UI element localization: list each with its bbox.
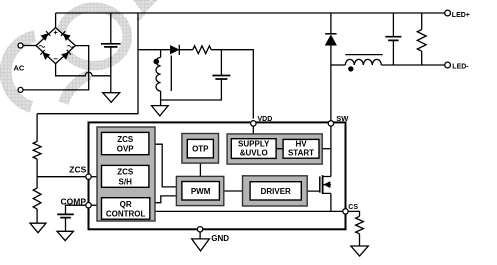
block group ZCS/QR (left) <box>97 127 155 221</box>
svg-text:LED-: LED- <box>452 64 469 71</box>
wire SUPPLY to HV START <box>276 148 283 150</box>
wire C1 to ground <box>110 47 112 93</box>
wire VDD pin to SUPPLY <box>252 126 254 139</box>
block HV START <box>283 139 319 158</box>
svg-text:ZCS: ZCS <box>69 164 86 174</box>
wire R4 to LED- line <box>421 51 423 65</box>
block DRIVER <box>243 176 308 206</box>
wire ZCS divider top <box>36 114 38 142</box>
wire SW pin to Q1 drain <box>330 126 332 177</box>
transformer winding T1 <box>154 56 172 92</box>
wire rail to R4 <box>421 13 423 30</box>
svg-text:COMP: COMP <box>61 197 87 207</box>
wire rail down to aux node and left to ZCS divider <box>37 13 138 114</box>
capacitor C3 (output) <box>385 37 401 41</box>
ground (GND pin) <box>192 239 210 251</box>
terminal AC top <box>18 43 23 48</box>
ground (R5) <box>351 246 368 256</box>
svg-text:OTP: OTP <box>192 145 209 154</box>
wire AC line top to bridge left corner <box>23 45 36 47</box>
wire AC line bottom to bridge right corner <box>23 46 89 90</box>
capacitor C4 (COMP) <box>57 214 74 217</box>
terminal AC bottom <box>18 87 23 92</box>
wire CS pin to R5 <box>348 211 359 216</box>
wire rail to C3 <box>392 13 394 37</box>
wire ZCS OVP to PWM <box>149 144 182 187</box>
resistor R3 (aux) <box>193 46 211 54</box>
svg-text:AC: AC <box>14 63 25 72</box>
block PWM <box>176 176 223 205</box>
wire R2 to ground <box>36 209 38 223</box>
wire GND pin to ground <box>199 232 201 239</box>
svg-text:OVP: OVP <box>117 144 135 153</box>
pin VDD <box>251 121 256 126</box>
wire rail to D3 <box>330 13 332 34</box>
ground (C1) <box>103 93 120 103</box>
pin ZCS <box>86 174 91 179</box>
wire top DC rail <box>56 12 445 14</box>
transistor Q1 (power MOSFET) <box>320 175 331 194</box>
wire OTP to PWM <box>199 158 201 177</box>
wire T1 top <box>160 50 162 58</box>
ground (C4) <box>57 231 73 240</box>
wire QR CONTROL to PWM <box>150 196 182 203</box>
svg-text:START: START <box>288 148 314 157</box>
capacitor C2 (VDD) <box>212 76 230 80</box>
svg-text:S/H: S/H <box>119 177 133 186</box>
svg-text:CS: CS <box>348 204 358 211</box>
block SUPPLY &UVLO <box>231 139 276 159</box>
wire COMP pin to QR CONTROL <box>91 204 102 206</box>
wire L1 to LED- terminal <box>381 64 444 66</box>
wire aux node to D2 and VDD <box>138 50 253 119</box>
resistor R2 <box>33 188 41 209</box>
wire C2 top <box>220 50 222 76</box>
ground (R2) <box>30 223 46 233</box>
inductor L1 <box>345 55 382 72</box>
svg-text:SW: SW <box>336 114 349 123</box>
pin COMP <box>86 203 91 208</box>
wire R5 to ground <box>359 234 361 246</box>
pin SW <box>328 121 333 126</box>
wire Q1 source to CS pin <box>330 193 332 211</box>
wire T1 bottom to ground <box>160 91 162 106</box>
svg-text:SUPPLY: SUPPLY <box>238 139 270 148</box>
resistor R1 <box>33 141 41 159</box>
svg-text:GND: GND <box>211 234 229 243</box>
wire ZCS pin to ZCS S/H <box>91 176 102 178</box>
terminal LED+ <box>445 10 451 16</box>
wire C2 bottom return to T1 <box>161 79 222 100</box>
block ZCS S/H <box>102 165 149 187</box>
ground (T1) <box>152 106 169 116</box>
wire rail to C1 <box>110 13 112 44</box>
wire D3 to SW pin <box>330 45 332 121</box>
terminal LED- <box>445 62 451 68</box>
op-amp-IC block U1 <box>89 122 346 229</box>
resistor R5 (current sense) <box>356 216 364 234</box>
pin GND <box>197 227 202 232</box>
diode D3 (freewheel) <box>325 34 337 46</box>
wire bridge bottom corner to C1 ground node (hop over AC wire) <box>56 64 111 76</box>
svg-text:HV: HV <box>295 140 307 149</box>
capacitor C1 <box>101 44 121 47</box>
block group SUPPLY/HV <box>227 134 322 164</box>
svg-text:&UVLO: &UVLO <box>240 148 268 157</box>
wire COMP pin to C4 <box>66 205 86 214</box>
pin CS <box>343 209 348 214</box>
wire PWM to DRIVER <box>219 190 250 192</box>
wire SW node to L1 <box>331 64 345 66</box>
svg-text:VDD: VDD <box>258 116 273 123</box>
svg-text:ZCS: ZCS <box>117 168 134 177</box>
wire QR CONTROL to CS pin <box>150 210 346 212</box>
svg-text:ZCS: ZCS <box>117 135 134 144</box>
wire C3 to LED- line <box>392 40 394 65</box>
block QR CONTROL <box>102 198 150 220</box>
block OTP <box>182 134 219 164</box>
svg-text:LED+: LED+ <box>452 12 470 19</box>
bridge rectifier BR1 <box>36 28 75 64</box>
wire R1 to R2 (ZCS node) <box>36 159 38 188</box>
svg-text:CONTROL: CONTROL <box>106 210 146 219</box>
diode D2 (aux) <box>170 45 179 55</box>
block ZCS OVP <box>102 132 149 154</box>
svg-text:QR: QR <box>120 200 132 209</box>
resistor R4 (output) <box>417 30 426 52</box>
svg-text:DRIVER: DRIVER <box>261 187 291 196</box>
wire HV START to SW line <box>319 148 331 150</box>
wire bridge top corner to rail <box>55 13 57 28</box>
wire C4 to ground <box>65 218 67 232</box>
wire DRIVER to Q1 gate <box>301 190 319 192</box>
wire ZCS node to ZCS pin <box>37 176 86 178</box>
svg-text:PWM: PWM <box>191 187 211 196</box>
